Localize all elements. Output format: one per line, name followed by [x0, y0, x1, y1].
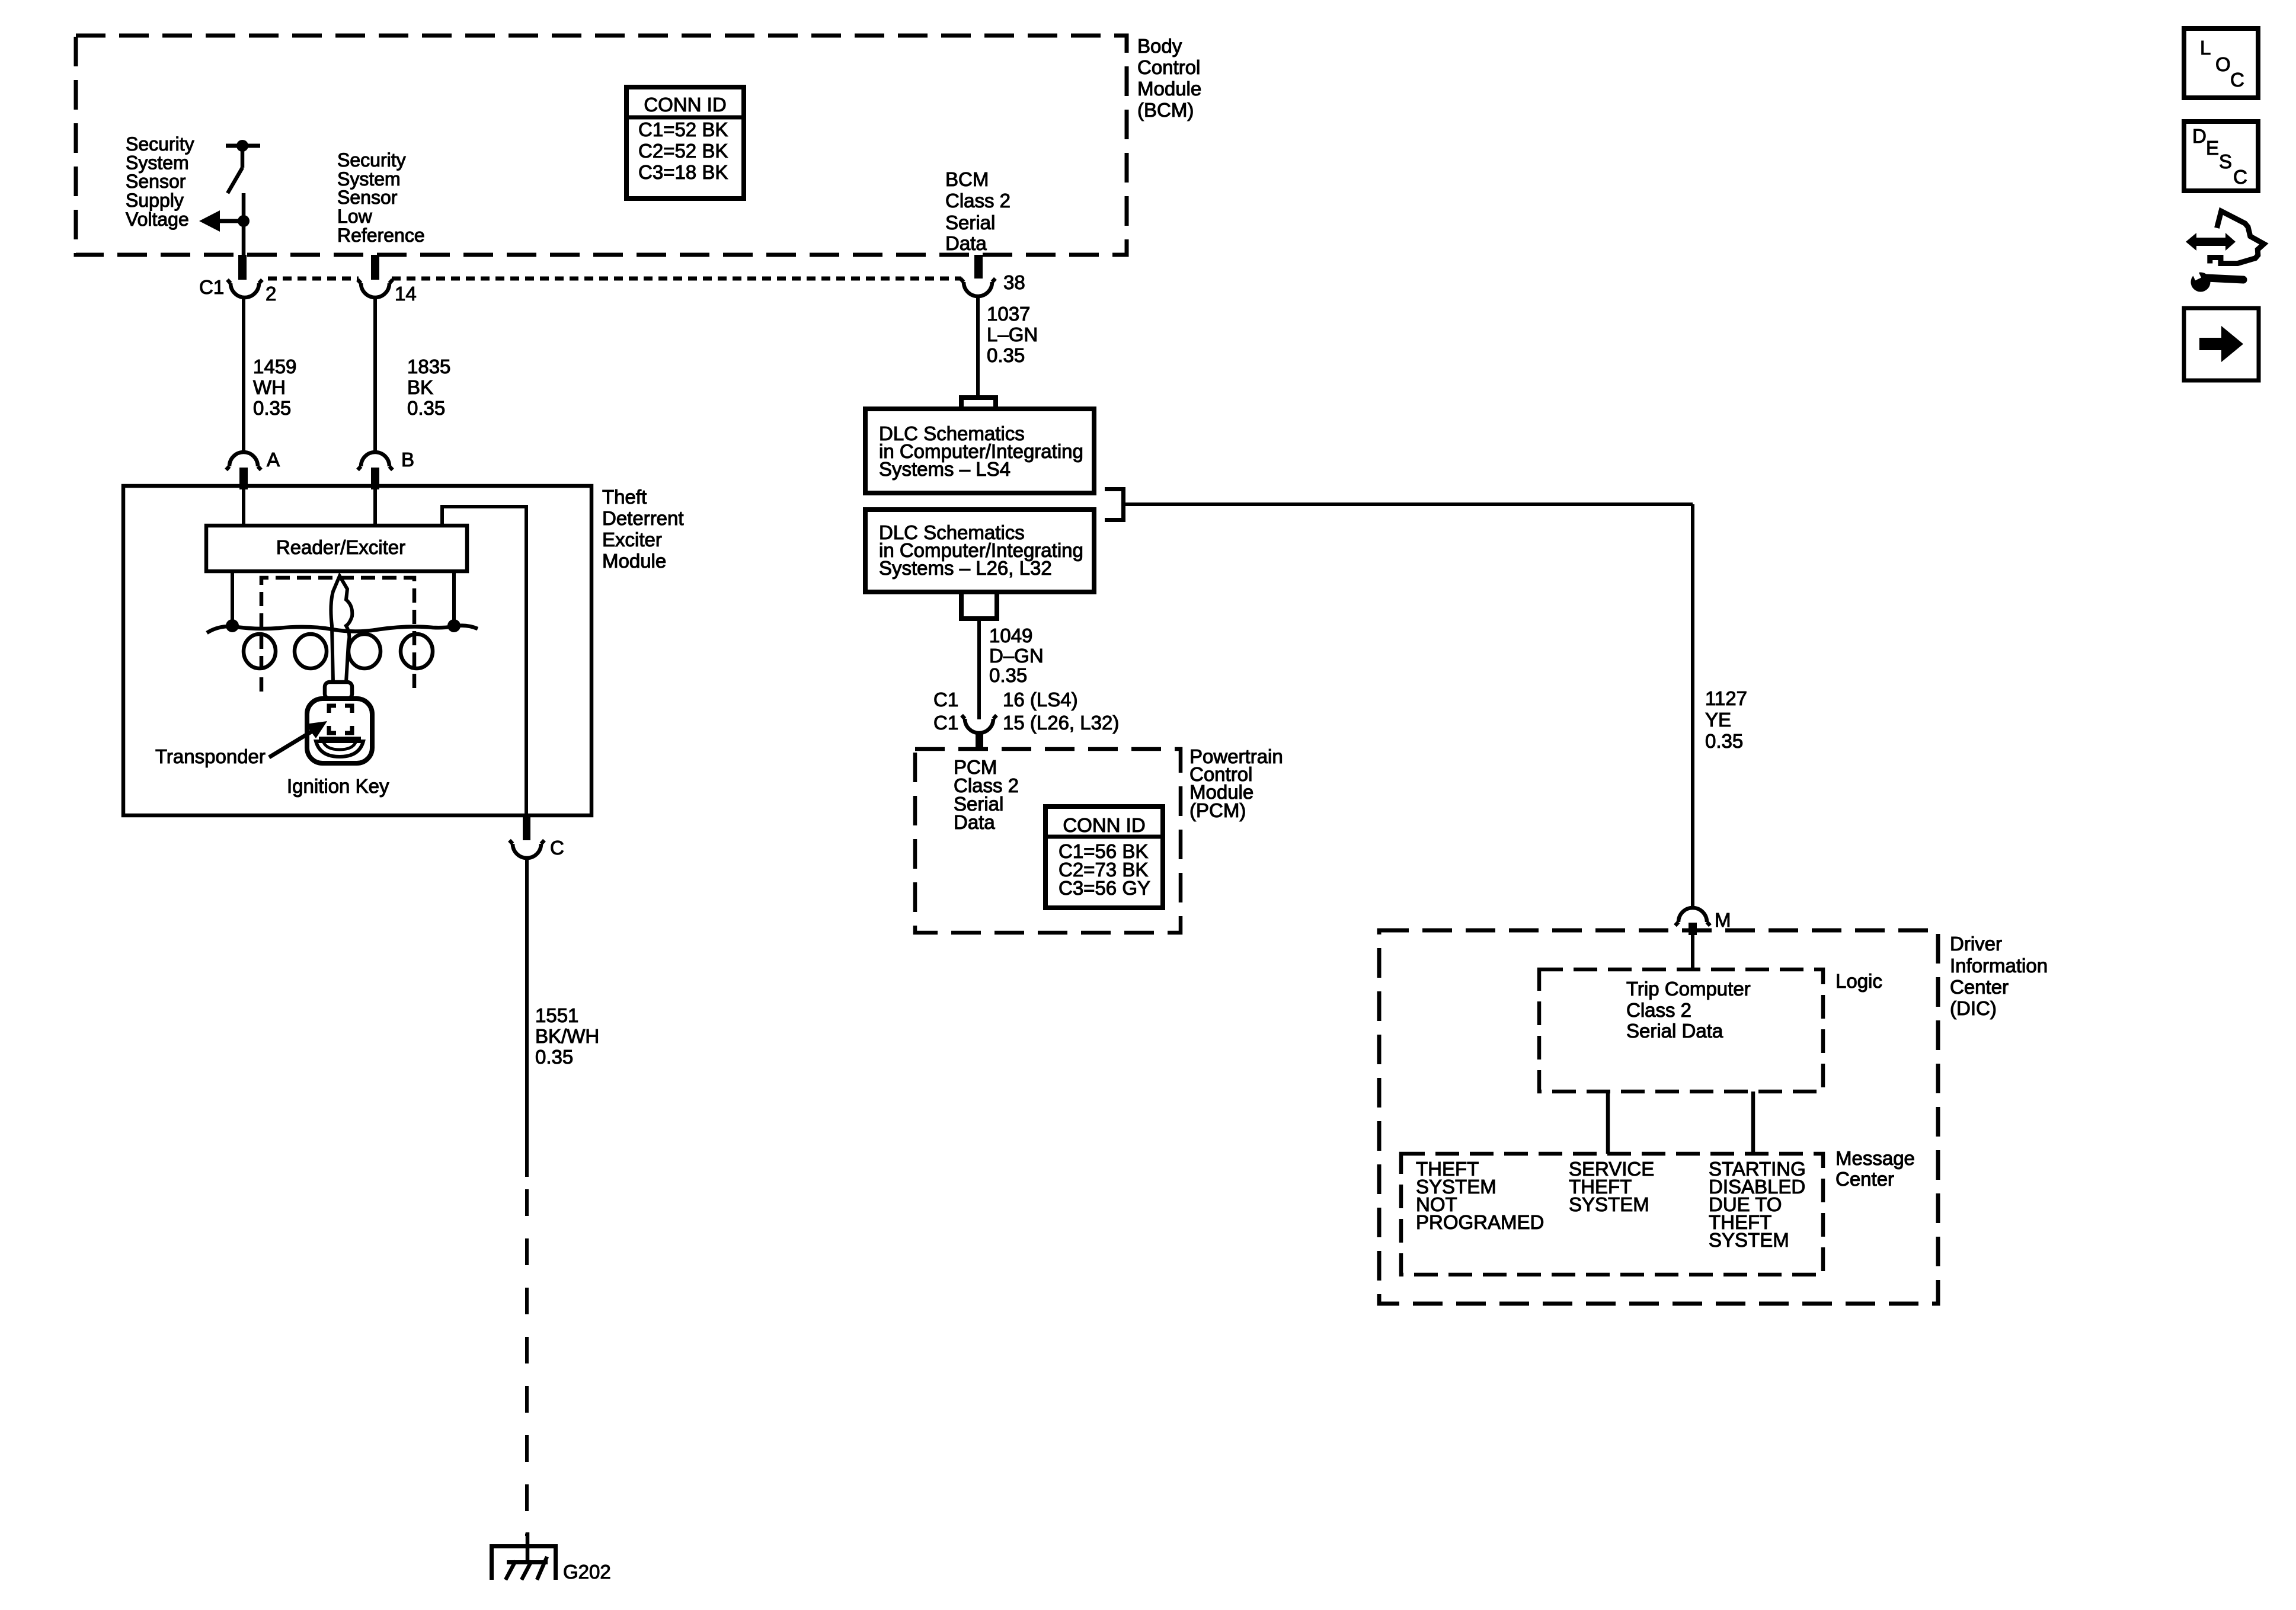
- svg-text:M: M: [1715, 909, 1731, 931]
- svg-text:D–GN: D–GN: [989, 645, 1044, 667]
- svg-text:(DIC): (DIC): [1950, 997, 1997, 1019]
- svg-text:C1: C1: [199, 276, 224, 298]
- svg-text:Center: Center: [1950, 976, 2009, 998]
- svg-text:Exciter: Exciter: [602, 529, 662, 550]
- svg-text:O: O: [2215, 53, 2231, 75]
- svg-text:WH: WH: [253, 376, 286, 398]
- svg-text:Voltage: Voltage: [126, 209, 189, 230]
- svg-text:Supply: Supply: [126, 190, 184, 211]
- svg-text:1835: 1835: [407, 356, 450, 377]
- svg-text:Control: Control: [1137, 56, 1200, 78]
- svg-text:1049: 1049: [989, 625, 1032, 646]
- svg-text:Logic: Logic: [1835, 970, 1882, 992]
- svg-text:C1=52 BK: C1=52 BK: [638, 119, 728, 140]
- svg-text:0.35: 0.35: [535, 1046, 573, 1068]
- svg-text:2: 2: [266, 283, 276, 305]
- svg-text:14: 14: [395, 283, 417, 305]
- svg-text:0.35: 0.35: [989, 664, 1027, 686]
- svg-text:Information: Information: [1950, 955, 2048, 977]
- svg-text:Sensor: Sensor: [126, 171, 186, 192]
- svg-text:CONN ID: CONN ID: [644, 94, 726, 116]
- svg-text:C1: C1: [933, 689, 958, 710]
- svg-text:Data: Data: [945, 232, 987, 254]
- svg-text:PROGRAMED: PROGRAMED: [1416, 1211, 1544, 1233]
- svg-text:C: C: [2230, 69, 2244, 91]
- svg-text:Driver: Driver: [1950, 933, 2002, 955]
- svg-text:A: A: [267, 449, 280, 470]
- svg-text:0.35: 0.35: [407, 397, 445, 419]
- svg-text:C3=56 GY: C3=56 GY: [1059, 877, 1150, 899]
- svg-text:16 (LS4): 16 (LS4): [1003, 689, 1078, 710]
- svg-text:Serial Data: Serial Data: [1626, 1020, 1723, 1042]
- svg-text:D: D: [2192, 125, 2207, 147]
- svg-text:(BCM): (BCM): [1137, 99, 1194, 121]
- svg-text:C1: C1: [933, 712, 958, 734]
- svg-text:Module: Module: [1137, 78, 1201, 100]
- svg-text:SYSTEM: SYSTEM: [1569, 1193, 1649, 1215]
- svg-text:Message: Message: [1835, 1147, 1915, 1169]
- svg-text:1127: 1127: [1705, 687, 1747, 709]
- svg-text:C3=18 BK: C3=18 BK: [638, 161, 728, 183]
- svg-text:0.35: 0.35: [1705, 730, 1743, 752]
- svg-text:Reader/Exciter: Reader/Exciter: [276, 536, 405, 558]
- svg-text:BCM: BCM: [945, 168, 989, 190]
- svg-text:Class 2: Class 2: [945, 190, 1011, 212]
- svg-text:G202: G202: [563, 1561, 611, 1583]
- svg-text:1037: 1037: [987, 303, 1030, 325]
- svg-text:BK: BK: [407, 376, 433, 398]
- svg-text:Ignition Key: Ignition Key: [287, 775, 389, 797]
- svg-text:Body: Body: [1137, 35, 1182, 57]
- svg-text:SYSTEM: SYSTEM: [1709, 1229, 1789, 1251]
- svg-text:Theft: Theft: [602, 486, 647, 508]
- svg-text:Data: Data: [954, 811, 995, 833]
- svg-text:1551: 1551: [535, 1004, 578, 1026]
- svg-text:Center: Center: [1835, 1168, 1894, 1190]
- svg-text:Low: Low: [337, 206, 373, 227]
- svg-text:B: B: [401, 449, 414, 470]
- svg-text:1459: 1459: [253, 356, 296, 377]
- svg-text:Class 2: Class 2: [1626, 999, 1691, 1021]
- svg-text:Reference: Reference: [337, 225, 425, 246]
- svg-text:(PCM): (PCM): [1189, 799, 1246, 821]
- svg-text:0.35: 0.35: [253, 397, 291, 419]
- svg-text:Systems – LS4: Systems – LS4: [879, 458, 1011, 480]
- svg-text:L: L: [2200, 37, 2211, 59]
- svg-text:C: C: [550, 837, 564, 859]
- svg-text:Serial: Serial: [945, 212, 995, 233]
- svg-text:C2=52 BK: C2=52 BK: [638, 140, 728, 162]
- svg-text:L–GN: L–GN: [987, 324, 1038, 345]
- svg-text:S: S: [2219, 151, 2232, 172]
- svg-text:15 (L26, L32): 15 (L26, L32): [1003, 712, 1119, 734]
- svg-text:Trip Computer: Trip Computer: [1626, 978, 1751, 1000]
- svg-text:CONN ID: CONN ID: [1063, 814, 1145, 836]
- svg-text:Security: Security: [337, 149, 406, 171]
- svg-text:Deterrent: Deterrent: [602, 507, 684, 529]
- svg-text:E: E: [2206, 137, 2219, 159]
- svg-text:Sensor: Sensor: [337, 187, 398, 208]
- svg-text:38: 38: [1003, 271, 1025, 293]
- svg-text:YE: YE: [1705, 709, 1731, 731]
- svg-text:BK/WH: BK/WH: [535, 1025, 599, 1047]
- svg-text:Transponder: Transponder: [155, 745, 266, 767]
- svg-text:0.35: 0.35: [987, 344, 1025, 366]
- svg-text:C: C: [2233, 166, 2247, 188]
- svg-text:Module: Module: [602, 550, 666, 572]
- svg-text:Systems – L26, L32: Systems – L26, L32: [879, 557, 1052, 579]
